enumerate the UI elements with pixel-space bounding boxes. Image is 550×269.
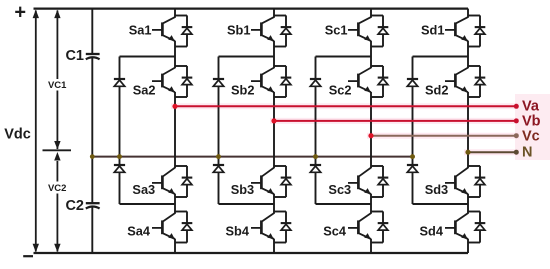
svg-text:Sc2: Sc2	[329, 82, 352, 97]
svg-text:Sb2: Sb2	[231, 82, 254, 97]
svg-text:Sa3: Sa3	[132, 182, 155, 197]
svg-text:+: +	[14, 2, 26, 24]
svg-text:Vc: Vc	[522, 128, 540, 144]
svg-text:Sb3: Sb3	[231, 182, 254, 197]
svg-text:VC2: VC2	[48, 183, 66, 194]
svg-text:C2: C2	[65, 198, 84, 214]
svg-text:Sb1: Sb1	[227, 22, 250, 37]
svg-text:Va: Va	[522, 99, 540, 115]
svg-text:Sa1: Sa1	[129, 22, 152, 37]
svg-text:Sd2: Sd2	[425, 82, 448, 97]
svg-text:Vb: Vb	[522, 113, 541, 129]
svg-text:Sd4: Sd4	[420, 224, 444, 239]
svg-text:Sb4: Sb4	[226, 224, 250, 239]
svg-text:Sc1: Sc1	[325, 22, 348, 37]
svg-text:Sd1: Sd1	[421, 22, 444, 37]
svg-text:Sa2: Sa2	[133, 82, 156, 97]
svg-text:Sc4: Sc4	[323, 224, 347, 239]
svg-text:N: N	[522, 144, 532, 160]
svg-text:Sa4: Sa4	[127, 224, 151, 239]
svg-text:Vdc: Vdc	[4, 126, 31, 142]
svg-text:VC1: VC1	[48, 80, 67, 91]
svg-text:C1: C1	[65, 48, 84, 64]
svg-text:Sd3: Sd3	[425, 182, 448, 197]
svg-text:Sc3: Sc3	[328, 182, 351, 197]
